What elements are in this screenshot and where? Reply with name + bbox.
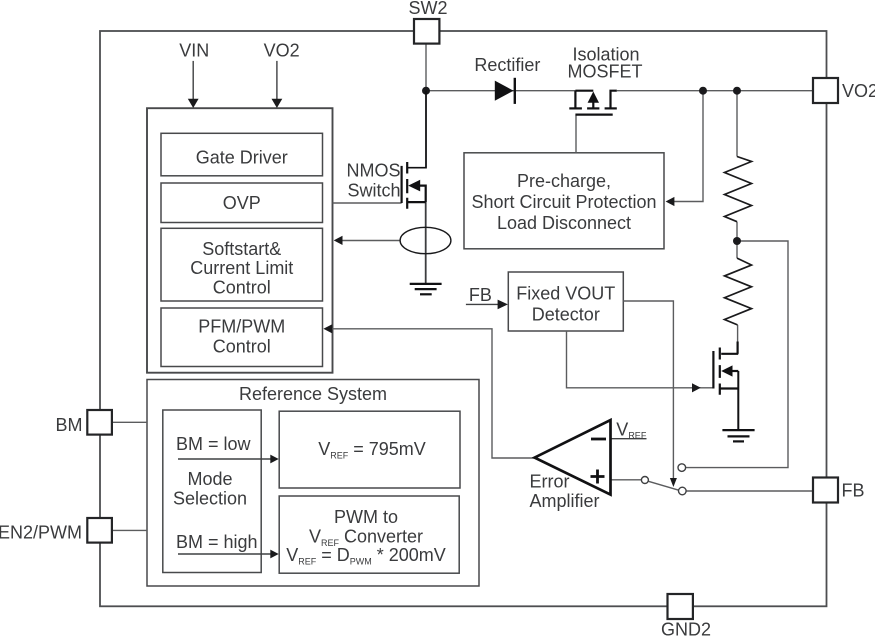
wire VO2 arrow shaft bbox=[276, 61, 278, 100]
svg-text:VIN: VIN bbox=[179, 41, 209, 61]
junction node VO2 branch bbox=[699, 87, 707, 95]
svg-text:SW2: SW2 bbox=[408, 0, 447, 18]
junction node divider tap bbox=[733, 237, 741, 245]
wire VIN arrow shaft bbox=[192, 61, 194, 100]
svg-text:Fixed VOUT: Fixed VOUT bbox=[516, 284, 615, 304]
chip outer border bbox=[100, 31, 827, 606]
op-amp error amplifier U1 bbox=[535, 420, 611, 495]
pin FB bbox=[813, 478, 838, 503]
wire BM pin to reference block bbox=[112, 421, 147, 423]
wire EN2/PWM pin to reference block bbox=[112, 529, 147, 531]
svg-text:VO2: VO2 bbox=[842, 81, 875, 101]
svg-text:Switch: Switch bbox=[347, 180, 400, 200]
wire top rail right of isolation MOSFET bbox=[617, 90, 813, 92]
arrowhead into softstart block bbox=[334, 236, 343, 245]
svg-text:Amplifier: Amplifier bbox=[530, 491, 600, 511]
block VREF = 795mV bbox=[279, 411, 460, 488]
svg-text:VO2: VO2 bbox=[264, 41, 300, 61]
block PWM to VREF Converter bbox=[279, 496, 459, 573]
svg-text:Error: Error bbox=[530, 472, 570, 492]
wire error amp output to PFM/PWM bbox=[330, 329, 535, 458]
wire M1 source through current source to ground bbox=[425, 202, 427, 283]
ground below M2 bbox=[722, 430, 754, 441]
svg-text:Rectifier: Rectifier bbox=[474, 55, 540, 75]
ground below current source bbox=[410, 284, 442, 294]
svg-text:Detector: Detector bbox=[532, 305, 600, 325]
block Gate Driver bbox=[161, 133, 323, 176]
pin BM bbox=[87, 410, 112, 435]
arrowhead down onto switch common bbox=[670, 478, 677, 487]
block Mode Selection bbox=[163, 410, 261, 573]
wire M1 drain bbox=[425, 91, 427, 168]
pin VO2 bbox=[813, 78, 838, 103]
block Reference System bbox=[147, 380, 479, 587]
wire current source to softstart arrow bbox=[340, 240, 400, 242]
wire BM=high arrow shaft bbox=[178, 553, 272, 555]
svg-text:Control: Control bbox=[213, 278, 271, 298]
wire SW2 stem bbox=[425, 44, 427, 91]
svg-text:Load Disconnect: Load Disconnect bbox=[497, 213, 631, 233]
arrowhead onto M2 gate bbox=[692, 383, 701, 392]
pin SW2 bbox=[414, 19, 439, 44]
svg-text:EN2/PWM: EN2/PWM bbox=[0, 523, 82, 543]
wire fixed VOUT right output down to switch bbox=[623, 301, 673, 479]
arrowhead into PFM/PWM block bbox=[323, 324, 332, 333]
svg-text:NMOS: NMOS bbox=[347, 160, 401, 180]
arrowhead BM=low bbox=[270, 455, 278, 464]
svg-text:PWM to: PWM to bbox=[334, 507, 398, 527]
svg-text:Short Circuit Protection: Short Circuit Protection bbox=[471, 192, 656, 212]
svg-text:Reference System: Reference System bbox=[239, 384, 387, 404]
wire divider tap to upper switch contact bbox=[686, 241, 789, 468]
switch contact circle at plus input bbox=[641, 477, 648, 484]
resistor R1 bbox=[725, 157, 752, 222]
svg-text:Control: Control bbox=[213, 337, 271, 357]
wire isolation MOSFET gate to precharge block bbox=[575, 116, 577, 153]
wire R2 bottom to M2 drain bbox=[737, 325, 739, 354]
block Fixed VOUT Detector bbox=[508, 272, 623, 331]
svg-text:OVP: OVP bbox=[223, 193, 261, 213]
wire error amp plus input bbox=[611, 479, 642, 481]
block PFM/PWM Control bbox=[161, 308, 323, 367]
svg-text:FB: FB bbox=[469, 285, 492, 305]
wire VO2 node down to precharge arrow bbox=[673, 91, 703, 202]
svg-text:PFM/PWM: PFM/PWM bbox=[198, 317, 285, 337]
svg-text:BM: BM bbox=[56, 415, 83, 435]
switch contact circle lower bbox=[679, 487, 687, 495]
junction node at SW2 rail bbox=[422, 87, 430, 95]
svg-text:GND2: GND2 bbox=[661, 620, 711, 637]
svg-text:BM = high: BM = high bbox=[176, 532, 258, 552]
svg-text:Pre-charge,: Pre-charge, bbox=[517, 171, 611, 191]
svg-text:Mode: Mode bbox=[187, 469, 232, 489]
wire FB label underline and arrow shaft bbox=[466, 303, 499, 305]
svg-text:Current Limit: Current Limit bbox=[190, 258, 293, 278]
svg-text:Selection: Selection bbox=[173, 489, 247, 509]
MOSFET M2 bbox=[713, 342, 738, 431]
wire top rail left of isolation MOSFET bbox=[426, 90, 575, 92]
switch contact circle upper bbox=[678, 464, 686, 472]
current source I1 bbox=[400, 227, 451, 253]
arrowhead into precharge block bbox=[666, 197, 675, 206]
svg-text:BM = low: BM = low bbox=[176, 434, 252, 454]
wire switch blade bbox=[648, 481, 679, 490]
arrowhead VIN into control block bbox=[188, 99, 199, 108]
arrowhead VO2 into control block bbox=[272, 99, 283, 108]
svg-text:Softstart&: Softstart& bbox=[202, 239, 281, 259]
wire OVP to M1 gate bbox=[333, 202, 402, 204]
NMOS switch M1 bbox=[402, 91, 426, 209]
wire fixed VOUT bottom to M2 gate bbox=[567, 331, 714, 388]
control block outer box bbox=[147, 108, 333, 373]
resistor R2 bbox=[725, 258, 752, 325]
block OVP bbox=[161, 183, 323, 223]
junction node divider top bbox=[733, 87, 741, 95]
block Pre-charge / Short Circuit Protection / Load Disconnect bbox=[464, 153, 664, 249]
rectifier diode D1 bbox=[495, 78, 515, 104]
pin EN2/PWM bbox=[87, 518, 112, 543]
wire BM=low arrow shaft bbox=[178, 458, 272, 460]
svg-text:Gate Driver: Gate Driver bbox=[196, 148, 288, 168]
block Softstart & Current Limit Control bbox=[161, 228, 323, 301]
wire divider top bbox=[736, 91, 738, 157]
svg-text:MOSFET: MOSFET bbox=[568, 62, 643, 82]
isolation MOSFET Q1 bbox=[569, 91, 617, 115]
wire lower switch contact to FB pin bbox=[686, 490, 813, 492]
wire between resistors bbox=[736, 222, 738, 258]
pin GND2 bbox=[668, 594, 693, 619]
arrowhead BM=high bbox=[270, 550, 278, 559]
svg-text:FB: FB bbox=[842, 481, 865, 501]
arrowhead FB into fixed VOUT detector bbox=[498, 300, 508, 310]
wire VREF stub on error amp minus input bbox=[611, 438, 647, 440]
